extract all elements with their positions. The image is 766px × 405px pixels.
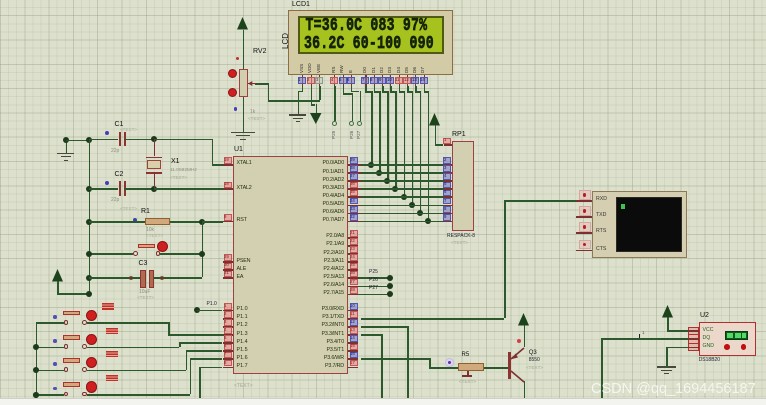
respack RP1 label	[452, 131, 466, 138]
sensor U2 pin VCC label	[703, 328, 714, 333]
LCD pin number 1	[298, 77, 306, 84]
crystal X1 bottom plate	[146, 172, 162, 174]
mcu U1 pin P0.7/AD7 stub	[348, 221, 362, 223]
capacitor C1 plate B	[124, 132, 126, 147]
mcu U1 pin number 25	[350, 263, 358, 270]
wire E jog	[351, 91, 360, 93]
wire E drop	[360, 91, 362, 122]
push button RESET terminal L	[133, 251, 138, 256]
wire U2 DQ	[601, 338, 687, 340]
mcu U1 pin P3.2/INT0 stub	[348, 326, 359, 328]
respack RP1 pin number 3	[443, 165, 451, 172]
wire to XTAL1	[212, 164, 223, 166]
wire P3.1 run	[361, 318, 504, 320]
LCD pin label E	[349, 70, 354, 73]
crystal X1 text	[170, 176, 187, 181]
wire D1 stub	[374, 86, 376, 91]
wire D2 jog	[382, 91, 388, 93]
push button SW4 red button	[86, 381, 97, 392]
mcu U1 pin P2.4/A12 stub	[348, 269, 359, 271]
mcu U1 pin P3.7/RD stub	[348, 367, 359, 369]
wire VDD down	[311, 86, 313, 104]
node E label	[357, 131, 362, 139]
transistor Q3 label	[529, 350, 537, 356]
wire button2 from bus	[36, 347, 64, 349]
potentiometer RV2 value	[250, 110, 255, 115]
respack RP1 pin number 2	[443, 157, 451, 164]
wire D1 jog	[374, 91, 380, 93]
mcu U1 pin P2.7/A15 stub	[348, 294, 359, 296]
wire D4 vertical	[404, 91, 406, 196]
respack RP1 pin number 4	[443, 173, 451, 180]
wire power stem	[57, 281, 59, 293]
LCD pin number 4	[330, 77, 338, 84]
capacitor C1 plate A	[119, 132, 121, 147]
node button bus junction 2	[33, 344, 39, 350]
sensor U2 pin GND label	[703, 344, 715, 349]
ground (U2)	[657, 366, 676, 368]
wire D3 jog	[390, 91, 396, 93]
wire to RST pin	[202, 221, 223, 223]
mcu U1 pin P1.6 label	[237, 356, 248, 361]
terminal pin RXD stub	[576, 200, 592, 202]
wire RP1 power stem	[435, 125, 437, 145]
LCD pin label D0	[363, 67, 368, 73]
LCD pin number 3	[315, 77, 323, 84]
wire D6 vertical	[420, 91, 422, 213]
wire D7 jog	[424, 91, 429, 93]
respack RP1 text	[451, 241, 468, 246]
crystal X1 body	[147, 160, 161, 170]
potentiometer RV2 red marker	[236, 57, 239, 60]
resistor R5 label	[462, 352, 470, 358]
mcu U1 pin number 9	[224, 214, 232, 221]
wire P3.1 rise	[504, 200, 506, 318]
node P1.0 label	[207, 302, 217, 307]
wire ground stem	[66, 140, 68, 153]
wire D5 stub	[407, 86, 409, 91]
node D2/P0.2 junction	[384, 178, 390, 184]
transistor Q3 value	[529, 358, 540, 363]
respack RP1 pin 5 stub	[444, 188, 452, 190]
wire button left	[89, 253, 133, 255]
mcu U1 pin P0.7/AD7 label	[283, 218, 344, 223]
wire U2 power stem	[667, 317, 669, 330]
power arrow (Q3)	[517, 312, 530, 327]
LCD pin label RW	[340, 65, 345, 73]
mcu U1 pin P2.0/A8 label	[283, 234, 344, 239]
power arrow (RV2 top)	[236, 16, 249, 31]
terminal pin RTS number dot	[583, 225, 586, 228]
mcu U1 pin P3.2/INT0 label	[283, 323, 344, 328]
push button SW3 marker	[53, 362, 57, 366]
wire P3.2 run	[361, 326, 407, 328]
watermark	[591, 382, 756, 397]
wire to terminal RXD	[504, 200, 578, 202]
push button SW4 terminal R	[82, 392, 87, 397]
mcu U1 pin number 13	[350, 327, 358, 334]
transistor Q3 collector	[507, 368, 527, 385]
mcu U1 pin number 38	[350, 165, 358, 172]
mcu U1 pin P1.2 stub	[223, 326, 234, 328]
power arrow (bottom left)	[51, 268, 64, 283]
mcu U1 pin number 31	[224, 271, 232, 278]
terminal pin CTS number box	[579, 240, 592, 250]
wire D7 vertical	[428, 91, 430, 221]
sensor U2 button plus	[741, 344, 747, 350]
mcu U1 body	[233, 156, 348, 374]
wire U2 GND	[666, 347, 688, 349]
node DQ label	[642, 331, 645, 336]
node RST junction	[199, 219, 205, 225]
push button SW4 marker	[53, 387, 57, 391]
wire P0.1 to RP1	[361, 172, 444, 174]
mcu U1 pin P3.0/RXD label	[283, 307, 344, 312]
push button SW1 chinese label	[102, 303, 108, 309]
mcu U1 pin XTAL1 stub	[223, 164, 234, 166]
terminal pin RTS label	[596, 229, 606, 234]
wire DQ down	[601, 338, 603, 398]
node E terminal	[357, 121, 362, 126]
push button SW1 terminal L	[64, 320, 69, 325]
respack RP1 pin 9 stub	[444, 221, 452, 223]
wire Q3 emitter up	[524, 325, 526, 348]
terminal pin RXD number dot	[583, 193, 586, 196]
node D6/P0.6 junction	[417, 210, 423, 216]
capacitor C3 plate B	[149, 270, 155, 288]
push button SW2 marker	[53, 339, 57, 343]
wire SW3 run	[87, 370, 186, 372]
capacitor C2 plate A	[119, 181, 121, 196]
LCD pin label D6	[413, 67, 418, 73]
terminal pin RTS stub	[576, 232, 592, 234]
resistor R5 marker	[445, 358, 454, 367]
mcu U1 pin P0.6/AD6 stub	[348, 213, 362, 215]
ground (top left)	[57, 153, 74, 155]
potentiometer RV2 text	[248, 117, 265, 122]
node D7/P0.7 junction	[425, 218, 431, 224]
transistor Q3 red marker	[517, 339, 521, 343]
capacitor C2 plate B	[124, 181, 126, 196]
resistor R5 text	[459, 380, 476, 385]
mcu U1 pin number 23	[350, 246, 358, 253]
wire RST vertical	[202, 221, 204, 277]
push button SW2 red button	[86, 334, 97, 345]
mcu U1 pin P0.5/AD5 stub	[348, 205, 362, 207]
potentiometer RV2 wiper arrow	[248, 83, 256, 84]
LCD LCD1 rotated name	[282, 33, 290, 49]
sensor U2 pin VCC stub	[688, 330, 699, 332]
mcu U1 pin P2.6/A14 stub	[348, 286, 359, 288]
wire SW4 rise	[190, 358, 192, 394]
mcu U1 pin P0.2/AD2 label	[283, 178, 344, 183]
wire SW1 run	[87, 322, 168, 324]
node D1/P0.1 junction	[376, 170, 382, 176]
wire SW2 rise	[179, 342, 181, 347]
mcu U1 pin P0.4/AD4 stub	[348, 196, 362, 198]
push button SW1 terminal R	[82, 320, 87, 325]
respack RP1 common pin number	[443, 138, 451, 145]
mcu U1 pin P2.5/A13 label	[283, 275, 344, 280]
push button SW4 terminal L	[64, 392, 69, 397]
node P2.6 terminal	[387, 283, 393, 289]
wire P2.5 net	[358, 277, 390, 279]
terminal pin RXD number box	[579, 190, 592, 200]
wire RV2 bottom	[243, 97, 245, 132]
wire power to bus	[57, 293, 88, 295]
LCD pin label VSS	[300, 64, 305, 73]
mcu U1 pin P0.0/AD0 stub	[348, 164, 362, 166]
mcu U1 pin number 4	[224, 327, 232, 334]
wire P1.0	[197, 310, 223, 312]
mcu U1 pin number 30	[224, 263, 232, 270]
node P2.5 terminal	[387, 275, 393, 281]
mcu U1 pin P3.3/INT1 stub	[348, 334, 359, 336]
LCD pin 11 stub	[399, 75, 400, 87]
respack RP1 name	[447, 234, 475, 239]
LCD pin label VDD	[308, 63, 313, 73]
respack RP1 body	[452, 141, 474, 232]
wire R1 right	[170, 221, 202, 223]
wire RW drop	[352, 93, 354, 121]
wire VSS down	[302, 86, 304, 91]
mcu U1 pin P0.0/AD0 label	[283, 161, 344, 166]
wire P0.4 to RP1	[361, 196, 444, 198]
node bus top junction	[86, 137, 92, 143]
wire P2.6 net	[358, 286, 390, 288]
wire D4 jog	[399, 91, 405, 93]
wire bottom run	[199, 398, 407, 400]
respack RP1 pin 4 stub	[444, 180, 452, 182]
push button SW1 red button	[86, 310, 97, 321]
sensor U2 pin GND stub	[688, 347, 699, 349]
wire DQ tick	[639, 334, 640, 339]
sensor U2 display	[725, 331, 749, 340]
wire to R5	[429, 367, 458, 369]
capacitor C3 marker L	[129, 276, 133, 280]
mcu U1 pin EA label	[237, 275, 244, 280]
capacitor C1 label	[115, 121, 124, 128]
respack RP1 pin 2 stub	[444, 164, 452, 166]
wire corner down to XTAL1	[212, 139, 214, 164]
wire SW1 drop	[168, 322, 170, 334]
LCD pin 3 stub	[319, 75, 320, 87]
capacitor C1 marker	[105, 131, 109, 135]
mcu U1 pin P2.5/A13 stub	[348, 277, 359, 279]
mcu U1 pin number 8	[224, 360, 232, 367]
LCD pin 8 stub	[374, 75, 375, 87]
mcu U1 pin P3.7/RD label	[283, 364, 344, 369]
capacitor C3 value	[139, 290, 150, 295]
wire ground to bus	[66, 140, 89, 142]
sensor U2 button minus	[724, 344, 730, 350]
mcu U1 pin P0.2/AD2 stub	[348, 180, 362, 182]
terminal cursor	[621, 204, 625, 209]
node RS terminal	[332, 121, 337, 126]
respack RP1 pin 7 stub	[444, 205, 452, 207]
push button SW3 chinese label	[106, 351, 112, 357]
mcu U1 pin P3.6/WR label	[283, 356, 344, 361]
terminal pin TXD label	[596, 213, 606, 218]
mcu U1 pin number 17	[350, 360, 358, 367]
wire SW2 to P1.4	[179, 342, 223, 344]
wire button right	[160, 253, 201, 255]
crystal X1 top stub	[154, 139, 156, 157]
potentiometer RV2 blue marker	[234, 107, 237, 110]
mcu U1 pin number 3	[224, 319, 232, 326]
mcu U1 pin number 14	[350, 335, 358, 342]
capacitor C3 marker R	[160, 276, 164, 280]
LCD pin label D2	[380, 67, 385, 73]
mcu U1 text	[234, 384, 253, 389]
LCD text line 1	[306, 16, 428, 34]
mcu U1 pin XTAL1 label	[237, 161, 252, 166]
mcu U1 pin P1.7 stub	[223, 367, 234, 369]
sensor U2 name	[699, 358, 720, 363]
LCD pin label D7	[421, 67, 426, 73]
wire C3 left	[89, 277, 140, 279]
mcu U1 pin XTAL2 stub	[223, 188, 234, 190]
LCD pin label D4	[397, 67, 402, 73]
wire P2.7 net	[358, 294, 390, 296]
wire P1.7 out	[199, 367, 222, 369]
LCD pin number 11	[395, 77, 403, 84]
mcu U1 pin P1.2 label	[237, 323, 248, 328]
wire left bus	[89, 140, 91, 293]
wire VSS left	[298, 91, 303, 93]
capacitor C2 value	[111, 198, 119, 203]
mcu U1 pin P1.4 stub	[223, 342, 234, 344]
mcu U1 pin P3.5/T1 stub	[348, 350, 359, 352]
wire VEE up	[268, 83, 270, 100]
node R1 bus junction	[86, 219, 92, 225]
node P2.6 label	[369, 278, 378, 283]
mcu U1 pin PSEN label	[237, 259, 251, 264]
mcu U1 pin P2.1/A9 label	[283, 242, 344, 247]
wire button bus	[36, 322, 38, 394]
wire C1 right	[124, 139, 154, 141]
capacitor C2 text	[120, 207, 137, 212]
resistor R5 body	[458, 363, 484, 371]
wire D0 jog	[365, 91, 372, 93]
LCD pin 2 stub	[311, 75, 312, 87]
push button SW1 marker	[53, 315, 57, 319]
node D0/P0.0 junction	[368, 162, 374, 168]
mcu U1 pin number 27	[350, 279, 358, 286]
wire D0 stub	[365, 86, 367, 91]
mcu U1 pin number 6	[224, 344, 232, 351]
power down arrow (LCD VDD)	[309, 112, 323, 125]
potentiometer RV2 adjust down button	[228, 88, 237, 97]
wire SW1 to P1.3	[168, 334, 223, 336]
mcu U1 pin number 2	[224, 311, 232, 318]
mcu U1 pin P0.3/AD3 stub	[348, 188, 362, 190]
LCD pin number 6	[347, 77, 355, 84]
wire VSS drop	[298, 91, 300, 115]
push button RESET red button	[157, 241, 168, 252]
mcu U1 pin number 21	[350, 230, 358, 237]
bottom window band	[0, 398, 766, 405]
wire RW down	[343, 86, 345, 93]
wire D4 stub	[399, 86, 401, 91]
respack RP1 pin number 5	[443, 182, 451, 189]
mcu U1 pin P3.3/INT1 label	[283, 332, 344, 337]
mcu U1 pin P2.4/A12 label	[283, 267, 344, 272]
mcu U1 pin number 33	[350, 206, 358, 213]
capacitor C3 text	[137, 296, 154, 301]
node button bus junction 4	[33, 392, 39, 398]
mcu U1 pin number 11	[350, 311, 358, 318]
mcu U1 pin number 18	[224, 182, 232, 189]
mcu U1 pin P3.0/RXD stub	[348, 310, 359, 312]
sensor U2 pin block	[688, 327, 699, 351]
wire D3 vertical	[395, 91, 397, 188]
push button SW3 cap	[63, 358, 80, 363]
ground (LCD VSS)	[289, 114, 306, 116]
LCD pin label D5	[405, 67, 410, 73]
LCD pin number 12	[403, 77, 411, 84]
mcu U1 pin number 16	[350, 352, 358, 359]
wire U2 GND drop	[666, 347, 668, 367]
LCD pin number 2	[307, 77, 315, 84]
mcu U1 pin P0.6/AD6 label	[283, 210, 344, 215]
wire D1 vertical	[379, 91, 381, 172]
terminal pin RXD label	[596, 197, 607, 202]
resistor R1 text	[146, 234, 163, 239]
wire Q3 collector down	[524, 381, 526, 398]
push button SW3 terminal R	[82, 367, 87, 372]
mcu U1 pin P0.3/AD3 label	[283, 186, 344, 191]
wire P3.6 drop	[429, 358, 431, 367]
potentiometer RV2 label	[253, 48, 267, 55]
wire R1 left	[89, 221, 145, 223]
wire button3 from bus	[36, 370, 64, 372]
capacitor C1 text	[120, 128, 137, 133]
node C2 bus junction	[86, 186, 92, 192]
resistor R1 value	[146, 228, 154, 233]
terminal pin RTS number box	[579, 222, 592, 232]
LCD text line 2	[304, 34, 434, 52]
LCD pin 13 stub	[415, 75, 416, 87]
mcu U1 pin P3.4/T0 stub	[348, 342, 359, 344]
push button SW4 chinese label	[106, 375, 112, 381]
wire P3.2 drop	[407, 326, 409, 398]
mcu U1 pin number 39	[350, 157, 358, 164]
node crystal bottom junction	[151, 186, 157, 192]
wire crystal to XTAL2	[154, 188, 223, 190]
sensor U2 pin DQ stub	[688, 338, 699, 340]
transistor Q3 text	[526, 366, 543, 371]
mcu U1 pin P3.6/WR stub	[348, 358, 359, 360]
respack RP1 pin number 9	[443, 214, 451, 221]
wire U2 VCC	[667, 330, 688, 332]
node P2.5 label	[369, 270, 378, 275]
wire RW jog	[343, 93, 352, 95]
capacitor C2 marker	[105, 181, 109, 185]
wire VEE to wiper	[255, 83, 268, 85]
wire P3.3 drop	[381, 334, 383, 398]
terminal pin CTS label	[596, 247, 606, 252]
wire D3 stub	[390, 86, 392, 91]
sensor U2 body	[699, 322, 756, 356]
node P2.7 label	[369, 286, 378, 291]
LCD pin label VEE	[317, 64, 322, 73]
wire SW3 rise	[186, 350, 188, 369]
mcu U1 pin number 24	[350, 254, 358, 261]
terminal body	[592, 191, 687, 258]
respack RP1 pin 8 stub	[444, 213, 452, 215]
capacitor C3 label	[139, 260, 148, 267]
